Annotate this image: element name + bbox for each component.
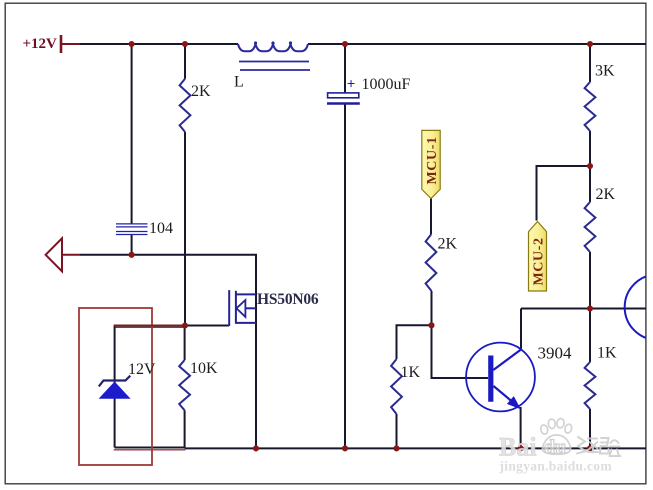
svg-text:2K: 2K [596, 186, 616, 203]
svg-text:10K: 10K [190, 360, 218, 377]
svg-text:2K: 2K [438, 236, 458, 253]
svg-text:2K: 2K [191, 83, 211, 100]
svg-text:12V: 12V [128, 361, 156, 378]
svg-text:1000uF: 1000uF [362, 76, 411, 93]
svg-text:3K: 3K [595, 63, 615, 80]
svg-text:HS50N06: HS50N06 [257, 291, 319, 308]
svg-text:3904: 3904 [538, 344, 573, 363]
svg-text:jingyan.baidu.com: jingyan.baidu.com [499, 459, 613, 474]
svg-text:L: L [234, 74, 244, 91]
svg-text:+: + [347, 77, 356, 93]
svg-text:MCU-1: MCU-1 [425, 136, 440, 184]
svg-text:104: 104 [149, 220, 173, 237]
svg-text:+12V: +12V [23, 36, 58, 52]
svg-text:du: du [544, 437, 566, 459]
svg-text:Bai: Bai [499, 433, 537, 462]
svg-text:1K: 1K [597, 345, 617, 362]
svg-text:1K: 1K [401, 364, 421, 381]
svg-text:MCU-2: MCU-2 [532, 237, 547, 285]
